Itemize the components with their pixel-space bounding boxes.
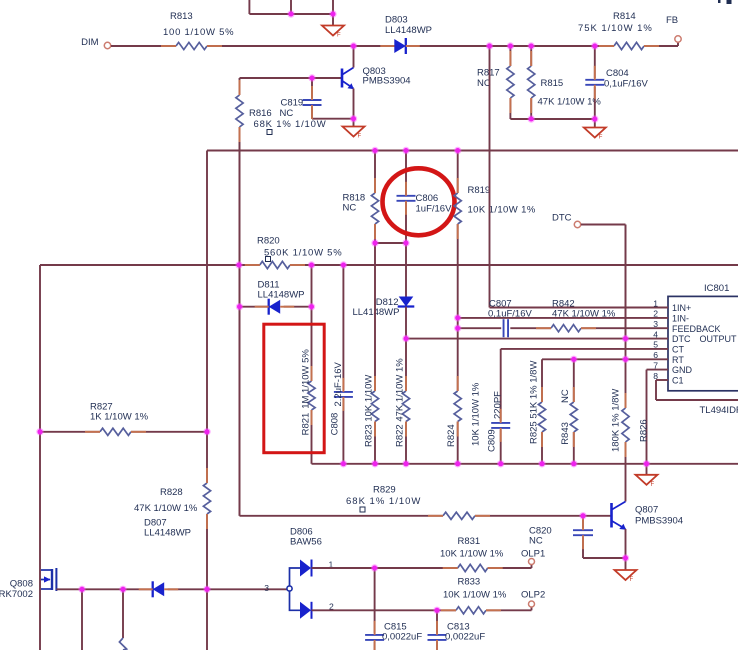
wire FB riser <box>677 42 679 46</box>
wire DTC vertical <box>625 225 627 339</box>
junction Q808 row x207 <box>203 586 210 593</box>
svg-text:0,1uF/16V: 0,1uF/16V <box>488 309 532 320</box>
resistor R842 <box>551 325 581 332</box>
wire top bank vertical 2 <box>290 0 292 14</box>
svg-text:180K 1% 1/8W: 180K 1% 1/8W <box>611 389 622 452</box>
junction pin4 D812 <box>402 335 409 342</box>
junction Q803 emitter bottom <box>350 115 357 122</box>
wire left rail vertical <box>39 265 41 650</box>
svg-text:BAW56: BAW56 <box>290 537 322 548</box>
svg-text:RT: RT <box>672 355 684 365</box>
fragment top-right cut symbol <box>718 0 721 3</box>
svg-text:F: F <box>358 134 362 140</box>
svg-text:F: F <box>599 135 603 141</box>
wire vert x123 <box>122 589 124 638</box>
wire Q807 ground stem <box>625 558 627 570</box>
wire top bank vertical 1 <box>248 0 250 14</box>
svg-text:IC801: IC801 <box>704 283 729 294</box>
wire pin7 GND row <box>647 369 669 371</box>
wire DTC horizontal <box>581 224 626 226</box>
junction source row a <box>78 586 85 593</box>
wire R814 to FB <box>644 45 678 47</box>
ground top <box>322 26 344 36</box>
svg-text:3: 3 <box>264 583 269 593</box>
capacitor C809 <box>500 349 502 421</box>
svg-text:LL4148WP: LL4148WP <box>385 25 432 36</box>
svg-text:NC: NC <box>343 203 357 214</box>
wire C1 route right <box>656 399 738 401</box>
svg-text:TL494IDR: TL494IDR <box>700 405 738 416</box>
ground Q803 emitter <box>343 127 365 137</box>
ground IC GND <box>636 475 658 485</box>
wire top bank horizontal <box>249 13 333 15</box>
junction bank rail GND line <box>643 460 650 467</box>
junction C804 top <box>591 42 598 49</box>
svg-text:100 1/10W 5%: 100 1/10W 5% <box>163 27 234 38</box>
wire Q808 source row <box>56 588 153 590</box>
resistor R815 <box>530 46 532 66</box>
wire R813 to D803 <box>207 45 396 47</box>
wire rail R820 row right <box>290 264 738 266</box>
svg-text:FB: FB <box>666 15 678 26</box>
wire D811 left <box>240 306 270 308</box>
svg-text:R825 51K 1% 1/8W: R825 51K 1% 1/8W <box>529 361 540 444</box>
resistor R843 <box>573 359 575 402</box>
wire R831 to OLP1 <box>488 567 532 569</box>
wire D806 pin2 to R833 <box>312 609 457 611</box>
resistor partial bottom <box>119 638 126 650</box>
junction C813 top <box>433 607 440 614</box>
junction top bank b <box>329 10 336 17</box>
svg-text:1uF/16V: 1uF/16V <box>416 204 453 215</box>
wire D807 to D806 <box>168 588 287 590</box>
annotation red rectangle around R821 <box>264 324 324 453</box>
junction pin1 riser <box>486 42 493 49</box>
resistor R833 <box>456 607 486 614</box>
wire top bank vertical 3 <box>332 0 334 14</box>
wire D806 pin1 to R831 <box>312 567 458 569</box>
port OLP2 <box>529 601 535 607</box>
diode D803 <box>394 39 406 53</box>
transistor Q803 <box>341 69 344 88</box>
junction C808 top <box>340 261 347 268</box>
junction D811 anode <box>236 303 243 310</box>
capacitor C808 <box>342 265 344 390</box>
svg-text:68K 1% 1/10W: 68K 1% 1/10W <box>346 496 421 507</box>
svg-text:C809: C809 <box>487 429 498 452</box>
svg-text:10K 1/10W 1%: 10K 1/10W 1% <box>471 382 482 446</box>
svg-text:0,0022uF: 0,0022uF <box>382 632 422 643</box>
svg-text:OLP1: OLP1 <box>521 549 545 560</box>
svg-text:Q807: Q807 <box>635 505 658 516</box>
svg-text:75K 1/10W 1%: 75K 1/10W 1% <box>578 23 653 34</box>
junction R821 top <box>308 261 315 268</box>
junction C806 top <box>402 147 409 154</box>
svg-text:NC: NC <box>560 389 571 403</box>
junction bank rail R823 <box>371 460 378 467</box>
svg-text:220PF: 220PF <box>493 391 504 419</box>
junction bank rail C809 <box>497 460 504 467</box>
wire mid-left vertical upper <box>206 151 208 484</box>
svg-text:0,0022uF: 0,0022uF <box>445 632 485 643</box>
junction C815 top <box>371 564 378 571</box>
capacitor C806 <box>405 151 407 195</box>
port DTC <box>574 221 580 227</box>
svg-text:DIM: DIM <box>81 37 99 48</box>
component pin leads overlay <box>161 45 176 47</box>
svg-text:DTC: DTC <box>672 334 691 344</box>
svg-text:47K 1/10W 1%: 47K 1/10W 1% <box>538 97 602 108</box>
svg-text:R824: R824 <box>446 424 457 447</box>
marker R829 square <box>360 507 365 512</box>
svg-text:F: F <box>651 482 655 488</box>
svg-text:C808: C808 <box>330 413 341 436</box>
svg-text:R822 47K 1/10W 1%: R822 47K 1/10W 1% <box>395 358 406 447</box>
svg-text:R819: R819 <box>468 185 491 196</box>
wire D803 to R814 <box>406 45 614 47</box>
wire R829 row <box>240 515 444 517</box>
resistor R826 <box>625 225 627 409</box>
svg-text:R828: R828 <box>160 487 183 498</box>
wire pin8 C1 vertical <box>655 380 657 400</box>
svg-text:OLP2: OLP2 <box>521 590 545 601</box>
wire Q803 base row <box>240 77 343 79</box>
resistor R814 <box>614 42 644 49</box>
resistor R819 <box>457 151 459 194</box>
junction Q807 emitter <box>622 554 629 561</box>
svg-text:C804: C804 <box>606 68 629 79</box>
svg-text:R833: R833 <box>458 577 481 588</box>
diode D806 pin1 <box>300 560 311 577</box>
junction Q803 collector <box>350 42 357 49</box>
svg-text:D803: D803 <box>385 15 408 26</box>
wire GND vertical <box>646 370 648 464</box>
svg-text:C1: C1 <box>672 376 684 386</box>
svg-text:Q808: Q808 <box>10 579 33 590</box>
wire mid-left vertical lower <box>206 514 208 650</box>
wire rail vref <box>207 150 738 152</box>
svg-text:CT: CT <box>672 345 684 355</box>
junction bank rail R825 <box>538 460 545 467</box>
junction source row b <box>119 586 126 593</box>
annotation red circle around C806 <box>383 168 455 235</box>
marker R816 square <box>267 130 272 135</box>
resistor R824 <box>457 422 459 464</box>
wire R833 to OLP2 <box>486 609 532 611</box>
svg-text:47K 1/10W 1%: 47K 1/10W 1% <box>552 309 616 320</box>
wire C806 to D812 <box>405 243 407 297</box>
wire DIM to R813 <box>111 45 176 47</box>
svg-text:2.2uF-16V: 2.2uF-16V <box>333 361 344 406</box>
svg-text:47K 1/10W 1%: 47K 1/10W 1% <box>134 503 198 514</box>
svg-text:1K 1/10W 1%: 1K 1/10W 1% <box>90 412 149 423</box>
resistor R822 <box>405 422 407 464</box>
wire R817 R815 C804 bottom row <box>510 118 594 120</box>
node D806 common <box>287 586 292 591</box>
svg-text:560K 1/10W 5%: 560K 1/10W 5% <box>264 248 342 259</box>
wire pin4 DTC row <box>406 338 668 340</box>
svg-text:C806: C806 <box>416 193 439 204</box>
transistor Q807 <box>610 503 613 528</box>
resistor R827 <box>40 431 100 433</box>
junction RT R826 <box>622 356 629 363</box>
svg-text:68K 1% 1/10W: 68K 1% 1/10W <box>254 119 327 130</box>
wire Q807 emitter vertical <box>625 529 627 558</box>
wire D811 right <box>284 306 312 308</box>
ic IC801 box <box>668 296 738 390</box>
wire C804 ground stem <box>594 119 596 128</box>
resistor R825 <box>541 359 543 402</box>
diode D807 <box>153 582 165 596</box>
svg-text:10K 1/10W 1%: 10K 1/10W 1% <box>468 205 536 216</box>
junction R818 top <box>371 147 378 154</box>
resistor R829 <box>443 512 475 519</box>
junction RT R843 <box>570 356 577 363</box>
wire D806 branch up <box>290 568 301 586</box>
resistor R813 <box>176 42 207 49</box>
transistor Q808 <box>41 569 52 571</box>
junction R815 top <box>528 42 535 49</box>
svg-text:R831: R831 <box>458 536 481 547</box>
junction R816 column row265 <box>235 261 242 268</box>
svg-text:1IN+: 1IN+ <box>672 303 691 313</box>
wire vert x82 <box>81 589 83 650</box>
capacitor C815 <box>374 568 376 633</box>
diode D812 <box>399 297 414 307</box>
wire D806 branch down <box>290 591 301 610</box>
wire Q803 ground stem <box>353 119 355 127</box>
svg-text:LL4148WP: LL4148WP <box>144 528 191 539</box>
wire top ground stem <box>332 14 334 26</box>
ground Q807 emitter <box>615 570 637 580</box>
junction C806 bottom <box>402 239 409 246</box>
junction C804 bottom <box>591 115 598 122</box>
svg-text:R826: R826 <box>639 419 650 442</box>
svg-text:PMBS3904: PMBS3904 <box>363 76 411 87</box>
svg-text:NC: NC <box>280 108 294 119</box>
wire pin1 riser <box>489 46 491 308</box>
capacitor C807 <box>503 319 505 337</box>
svg-text:R813: R813 <box>170 11 193 22</box>
wire bank rail <box>312 463 738 465</box>
svg-text:NC: NC <box>529 536 543 547</box>
wire pin3 row right <box>581 327 668 329</box>
wire OLP2 riser <box>531 607 533 610</box>
junction C820 top <box>579 512 586 519</box>
junction bank rail R843 <box>570 460 577 467</box>
wire C819 bottom row <box>312 118 354 120</box>
wire OLP1 riser <box>531 565 533 568</box>
junction C819 top <box>308 74 315 81</box>
wire Q803 collector <box>353 46 355 68</box>
svg-text:1IN-: 1IN- <box>672 314 689 324</box>
svg-text:RK7002: RK7002 <box>0 589 33 600</box>
port DIM <box>104 42 110 48</box>
port FB <box>675 36 681 42</box>
junction pin4 DTC riser <box>622 335 629 342</box>
resistor R817 <box>509 46 511 66</box>
resistor R818 <box>374 151 376 194</box>
svg-text:GND: GND <box>672 365 693 375</box>
junction R827 right <box>203 428 210 435</box>
wire pin6 RT row <box>542 358 668 360</box>
marker R820 square <box>266 257 271 262</box>
wire pin5 CT row <box>501 348 668 350</box>
wire pin3 row mid <box>510 327 551 329</box>
resistor R816 <box>239 78 241 95</box>
svg-text:PMBS3904: PMBS3904 <box>635 516 683 527</box>
svg-text:LL4148WP: LL4148WP <box>352 307 399 318</box>
junction R818 bottom <box>371 239 378 246</box>
svg-text:0,1uF/16V: 0,1uF/16V <box>604 79 648 90</box>
resistor R828 <box>203 483 210 514</box>
junction bank rail R824 <box>454 460 461 467</box>
svg-text:FEEDBACK: FEEDBACK <box>672 324 721 334</box>
diode D806 pin2 <box>300 602 311 619</box>
svg-text:DTC: DTC <box>552 213 572 224</box>
svg-text:F: F <box>630 577 634 583</box>
wire D812 to DTC row <box>405 307 407 391</box>
svg-text:F: F <box>337 33 341 39</box>
wire pin8 C1 row <box>656 379 668 381</box>
resistor R823 <box>374 243 376 391</box>
wire rail R820 row left <box>40 264 260 266</box>
junction bank rail C808 <box>340 460 347 467</box>
svg-text:C819: C819 <box>281 98 304 109</box>
junction R817 top <box>507 42 514 49</box>
resistor R821 <box>311 265 313 381</box>
svg-text:R817: R817 <box>477 68 500 79</box>
ground C804 <box>584 128 606 138</box>
svg-text:1M 1/10W 5%: 1M 1/10W 5% <box>301 349 312 409</box>
capacitor C813 <box>436 610 438 633</box>
wire C820 bottom row <box>583 557 626 559</box>
wire R829 row left vertical <box>239 127 241 516</box>
wire pin2 row <box>458 317 668 319</box>
wire R819 to R824 <box>457 318 459 391</box>
diode D811 <box>269 300 281 314</box>
capacitor C819 <box>311 78 313 98</box>
svg-text:10K 1/10W 1%: 10K 1/10W 1% <box>443 590 507 601</box>
junction pin2 left <box>454 314 461 321</box>
svg-text:R814: R814 <box>613 11 636 22</box>
port OLP1 <box>529 559 535 565</box>
svg-text:R815: R815 <box>541 78 564 89</box>
wire R829 to Q807 base <box>475 515 611 517</box>
resistor R820 <box>260 261 290 268</box>
junction R827 left <box>36 428 43 435</box>
svg-text:LL4148WP: LL4148WP <box>258 290 305 301</box>
resistor R831 <box>458 564 488 571</box>
wire R818 C806 bottom row <box>375 242 406 244</box>
junction bank rail R822 <box>402 460 409 467</box>
svg-text:OUTPUT: OUTPUT <box>700 334 738 344</box>
svg-text:R816: R816 <box>249 108 272 119</box>
svg-text:R829: R829 <box>373 485 396 496</box>
junction R815 bottom <box>528 115 535 122</box>
svg-text:R823 10K 1/10W: R823 10K 1/10W <box>364 375 375 447</box>
wire pin1 row <box>490 307 669 309</box>
svg-text:R821: R821 <box>301 413 312 436</box>
wire pin3 row left <box>458 327 502 329</box>
svg-text:R843: R843 <box>560 422 571 445</box>
junction R819 top <box>454 147 461 154</box>
junction pin3 left <box>454 325 461 332</box>
junction D811 cathode <box>308 303 315 310</box>
capacitor C804 <box>594 46 596 78</box>
svg-text:R820: R820 <box>257 236 280 247</box>
wire GND stem <box>646 464 648 475</box>
junction top bank a <box>287 10 294 17</box>
svg-text:10K 1/10W 1%: 10K 1/10W 1% <box>440 549 504 560</box>
wire Q803 emitter <box>353 89 355 119</box>
capacitor C820 <box>582 516 584 528</box>
